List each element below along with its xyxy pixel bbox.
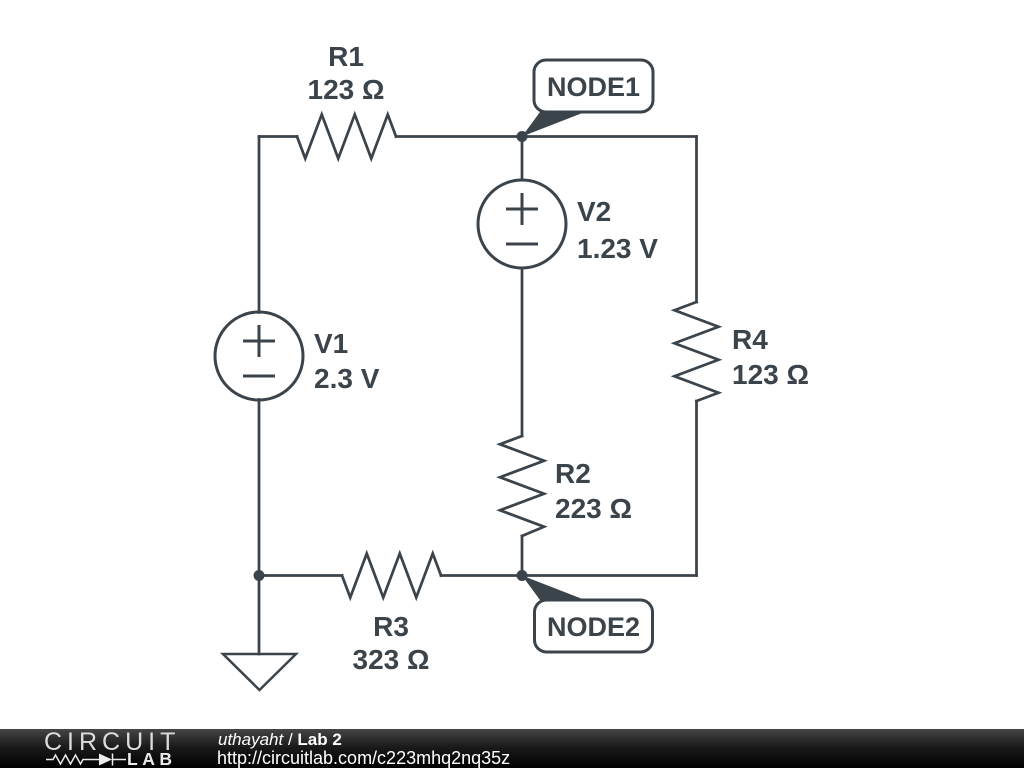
node A junction dot NODE1: [517, 131, 528, 142]
resistor R4: [675, 302, 719, 401]
V2 plus sign: [508, 195, 537, 224]
svg-text:323 Ω: 323 Ω: [353, 644, 430, 675]
wire middle vertical NODE1 to V2: [521, 137, 524, 181]
svg-text:LAB: LAB: [127, 749, 176, 768]
svg-text:V1: V1: [314, 328, 348, 359]
NODE2 flag pointer: [522, 576, 585, 601]
svg-text:NODE2: NODE2: [547, 612, 640, 642]
svg-text:123 Ω: 123 Ω: [308, 74, 385, 105]
wire right vertical lower: [695, 401, 698, 576]
wire middle vertical R2 to NODE2: [521, 536, 524, 576]
svg-text:http://circuitlab.com/c223mhq2: http://circuitlab.com/c223mhq2nq35z: [217, 748, 510, 768]
V1 plus sign: [245, 327, 274, 356]
resistor R1: [297, 115, 396, 159]
node C junction dot ground/left: [254, 570, 265, 581]
wire left vertical top (R1 lead to V1): [258, 137, 261, 313]
footer bar: [0, 729, 1024, 768]
svg-text:R3: R3: [373, 611, 409, 642]
wire left vertical bottom (V1 to bottom node): [258, 400, 261, 576]
resistor R3: [342, 554, 441, 598]
svg-text:uthayaht / Lab 2: uthayaht / Lab 2: [218, 730, 342, 749]
wire ground stem: [258, 576, 261, 655]
NODE1 flag box: [534, 60, 653, 112]
logo resistor-diode doodle: [46, 754, 126, 766]
V2 minus sign: [508, 243, 537, 246]
wire middle vertical V2 to R2: [521, 268, 524, 436]
svg-text:1.23 V: 1.23 V: [577, 233, 658, 264]
svg-text:2.3 V: 2.3 V: [314, 363, 380, 394]
svg-text:R1: R1: [328, 41, 364, 72]
node B junction dot NODE2: [517, 570, 528, 581]
wire top horizontal (R1 to NODE1 to right corner): [396, 135, 697, 138]
wire right vertical upper: [695, 137, 698, 303]
NODE1 flag pointer: [522, 112, 585, 137]
wire top horizontal left lead: [259, 135, 297, 138]
NODE2 flag box: [535, 600, 653, 652]
svg-text:223 Ω: 223 Ω: [555, 493, 632, 524]
resistor R2: [500, 436, 544, 536]
voltage source V1 circle: [215, 312, 303, 400]
svg-text:R4: R4: [732, 324, 768, 355]
wire bottom horizontal left: [259, 574, 342, 577]
ground: [223, 654, 296, 690]
wire bottom horizontal right: [441, 574, 697, 577]
svg-text:123 Ω: 123 Ω: [732, 359, 809, 390]
svg-text:R2: R2: [555, 458, 591, 489]
voltage source V2 circle: [478, 180, 566, 268]
V1 minus sign: [245, 375, 274, 378]
svg-text:V2: V2: [577, 196, 611, 227]
svg-text:NODE1: NODE1: [547, 72, 640, 102]
